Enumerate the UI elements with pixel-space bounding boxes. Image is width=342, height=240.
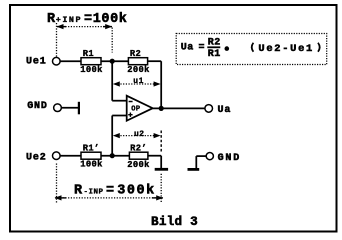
svg-text:200k: 200k <box>127 65 150 75</box>
svg-text:Ue2-Ue1: Ue2-Ue1 <box>258 43 314 55</box>
svg-text:R: R <box>74 184 83 199</box>
svg-text:100k: 100k <box>80 65 103 75</box>
svg-text:GND: GND <box>27 101 48 112</box>
svg-text:Ua: Ua <box>181 43 194 54</box>
svg-text:R1’: R1’ <box>83 143 100 153</box>
svg-text:Ue2: Ue2 <box>26 152 47 163</box>
svg-text:Ua: Ua <box>218 105 232 116</box>
svg-text:GND: GND <box>218 153 241 164</box>
svg-text:R2’: R2’ <box>130 143 147 153</box>
svg-text:=: = <box>199 43 205 54</box>
svg-text:300k: 300k <box>117 184 155 199</box>
svg-text:u2: u2 <box>134 130 145 139</box>
svg-text:-INP: -INP <box>84 188 104 196</box>
svg-text:Ue1: Ue1 <box>26 56 47 67</box>
svg-text:+INP: +INP <box>56 15 82 25</box>
svg-text:OP: OP <box>131 106 140 114</box>
svg-text:R2: R2 <box>130 49 141 59</box>
svg-text:200k: 200k <box>127 160 150 170</box>
svg-text:100k: 100k <box>80 159 103 169</box>
svg-text:R: R <box>47 12 56 27</box>
svg-text:R1: R1 <box>83 49 94 59</box>
svg-text:Bild 3: Bild 3 <box>151 214 198 229</box>
svg-text:=: = <box>106 184 115 199</box>
svg-text:R1: R1 <box>208 49 221 60</box>
